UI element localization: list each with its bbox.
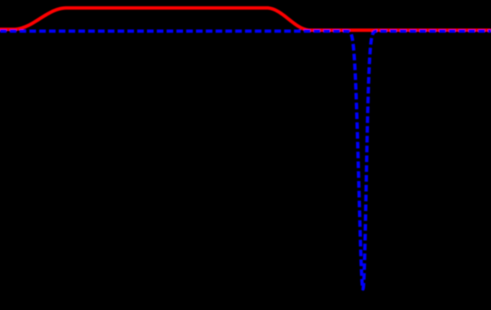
red solid curve: smoothed rectangular pulse xyxy=(0,8,490,30)
